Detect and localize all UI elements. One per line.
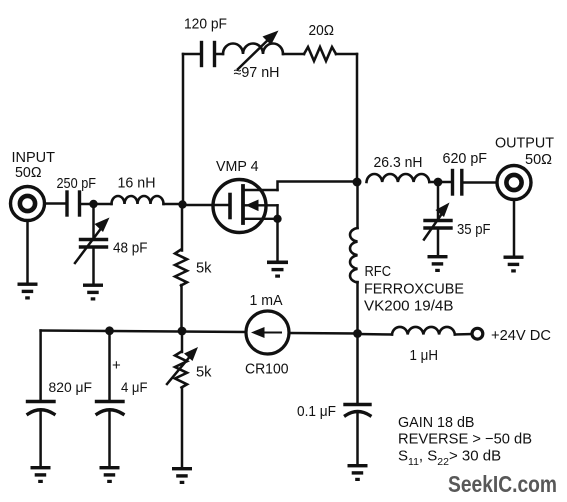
current source CR100 1 mA [246,311,289,354]
svg-text:48 pF: 48 pF [113,240,148,257]
wire: drain node down to RFC [356,182,359,228]
svg-text:5k: 5k [196,260,212,277]
svg-text:1 μH: 1 μH [410,347,439,364]
arrow through 48 pF [75,218,110,264]
node: source tie dot [273,215,281,223]
arrow through 97 nH inductor [238,31,279,70]
capacitor 250 pF [67,192,80,215]
svg-text:RFC: RFC [365,263,392,280]
svg-text:0.1 μF: 0.1 μF [297,403,336,420]
svg-text:FERROXCUBE: FERROXCUBE [364,281,464,298]
resistor 5k variable (pot) [175,352,187,388]
svg-text:REVERSE > −50 dB: REVERSE > −50 dB [398,431,532,448]
svg-text:50Ω: 50Ω [15,164,42,181]
svg-text:VK200 19/4B: VK200 19/4B [364,298,454,315]
svg-text:620 pF: 620 pF [443,150,488,167]
wire: gate lead [183,204,230,207]
node: drain node [353,178,362,187]
node Jb 4uF junction [105,326,114,335]
wire: J4 down to 35 pF [437,182,440,219]
wire: RFC to J5 [356,282,359,334]
wire: bottom bus left [41,331,246,333]
wire [45,202,66,205]
resistor 20 ohm [304,47,336,61]
wire: J5 down to 0.1uF [356,334,359,403]
ground: output [504,256,524,273]
svg-text:S11, S22> 30 dB: S11, S22> 30 dB [398,448,501,469]
wire [108,412,111,466]
svg-text:+24V DC: +24V DC [491,327,551,344]
arrow through 5k pot [167,347,198,384]
capacitor 820 uF (electrolytic) [28,402,55,415]
ground: 35 pF [428,255,448,272]
node J3 5k pot junction [178,327,187,336]
svg-text:35 pF: 35 pF [457,221,491,238]
inductor 16 nH (4 humps) [112,196,164,204]
capacitor 48 pF variable [81,240,107,248]
wire: J1 down to 48 pF [92,204,95,238]
capacitor 0.1 uF [345,405,370,416]
node J2 gate junction [178,200,186,208]
wire [336,53,357,56]
wire: 820uF corner down [39,331,42,401]
svg-text:1 mA: 1 mA [250,292,283,309]
ground: 820 uF [31,466,51,483]
svg-text:820 μF: 820 μF [49,379,93,395]
connector INPUT jack [11,187,45,221]
ground: 48 pF [83,284,103,301]
inductor ~97 nH (variable, 3 humps) [223,44,283,55]
svg-text:≈97 nH: ≈97 nH [234,64,280,81]
resistor 5k (gate bias upper) [175,250,187,286]
wire [465,181,498,184]
wire: top feedback left vertical [182,54,185,205]
svg-text:20Ω: 20Ω [309,22,335,39]
svg-text:4 μF: 4 μF [121,379,148,395]
node J1 input junction [89,200,97,208]
wire: feedback right vertical down to drain node [356,54,359,182]
wire [180,285,183,331]
wire: output jack down [513,200,516,256]
inductor 26.3 nH (4 humps) [367,174,430,182]
connector OUTPUT jack [497,166,531,200]
svg-text:250 pF: 250 pF [57,175,97,192]
wire [39,412,42,466]
wire [216,53,223,56]
wire [429,181,450,184]
wire: J3 down to 5k pot [181,331,184,352]
wire: source down [276,219,279,260]
wire [356,414,359,464]
node J5 supply junction [353,329,362,338]
wire [164,203,183,206]
svg-text:GAIN 18 dB: GAIN 18 dB [398,414,475,431]
transistor VMP 4 (MOSFET) [213,180,278,233]
wire [92,248,95,283]
node J4 output junction [434,178,443,187]
svg-text:OUTPUT: OUTPUT [495,135,554,152]
wire [181,388,184,467]
wire: top feedback horizontal left [183,53,201,56]
svg-text:5k: 5k [196,364,212,381]
wire: drain riser [278,182,358,191]
svg-text:CR100: CR100 [245,361,289,378]
wire [455,333,472,336]
svg-text:50Ω: 50Ω [525,151,552,168]
capacitor 120 pF [202,43,215,66]
ground: 0.1 uF [348,464,368,481]
svg-text:16 nH: 16 nH [118,175,156,192]
wire: J5 right to 1uH [358,333,393,336]
ground: input [18,283,38,300]
terminal +24V DC [472,328,483,339]
wire [437,229,440,255]
inductor 1 uH (4 humps) [392,327,455,335]
svg-text:VMP 4: VMP 4 [216,158,259,175]
svg-text:120 pF: 120 pF [184,16,227,33]
capacitor 35 pF variable [425,221,451,229]
wire [81,203,112,206]
svg-text:26.3 nH: 26.3 nH [374,154,423,171]
wire: input jack down [26,221,29,283]
ground: source [267,261,288,278]
svg-text:+: + [112,357,121,374]
wire: Jb down [108,331,111,400]
wire: current source to J5 [289,332,358,335]
inductor RFC (vertical, 4 humps) [350,228,357,282]
capacitor 620 pF [453,171,462,195]
capacitor 4 uF (electrolytic) [97,402,124,415]
wire: J2 down to 5k [181,205,184,251]
wire [283,53,304,56]
arrow through 35 pF [424,203,450,240]
ground: 4 uF [100,466,120,483]
ground: 5k pot [172,467,192,484]
svg-text:SeekIC.com: SeekIC.com [448,471,557,497]
